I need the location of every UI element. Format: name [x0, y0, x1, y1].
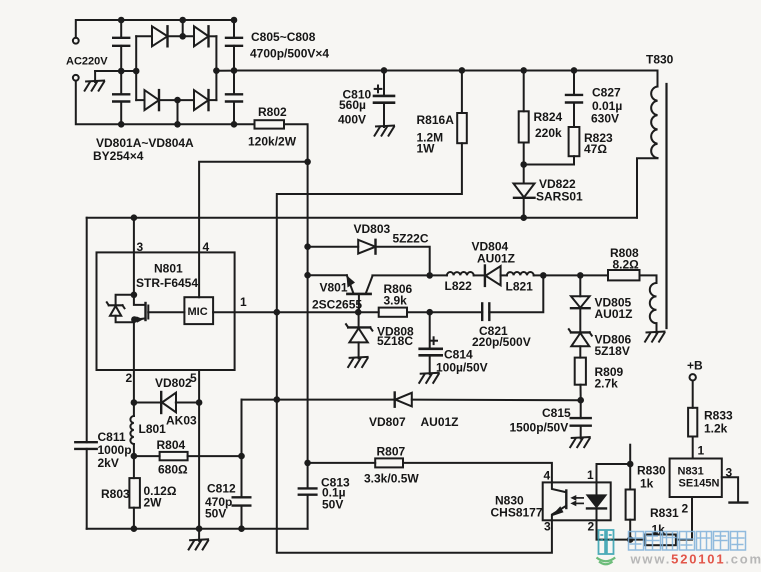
diode VD807 — [394, 393, 396, 407]
opto phototransistor emitter — [552, 506, 566, 521]
transformer T830 core — [665, 84, 667, 328]
svg-text:R807: R807 — [377, 445, 406, 459]
wire pin3 — [133, 218, 135, 295]
wire R823 bottom to VD822 node — [524, 156, 574, 164]
svg-text:SARS01: SARS01 — [536, 190, 583, 204]
svg-text:AU01Z: AU01Z — [595, 307, 633, 321]
svg-text:120k/2W: 120k/2W — [248, 135, 297, 149]
wire ground stub — [94, 71, 96, 82]
mosfet N801 gate lead — [148, 311, 184, 313]
svg-text:5Z22C: 5Z22C — [393, 232, 429, 246]
svg-text:R804: R804 — [157, 438, 186, 452]
capacitor C806 — [120, 71, 122, 94]
inductor L801 — [133, 403, 135, 417]
junction dots — [118, 17, 125, 24]
bridge rectifier frame right edge — [215, 36, 217, 100]
svg-text:4: 4 — [544, 469, 551, 483]
terminal +B — [690, 374, 696, 380]
svg-text:50V: 50V — [205, 507, 226, 521]
wire R802 node to pin4 branch — [199, 162, 308, 297]
mosfet N801 gate bar — [147, 306, 149, 319]
svg-text:220k: 220k — [535, 126, 562, 140]
wire V801 emitter line — [308, 274, 347, 276]
wire R816A bottom to left vertical and feedback loop — [277, 143, 552, 553]
svg-text:C812: C812 — [207, 482, 236, 496]
ground T830 secondary — [645, 332, 666, 343]
resistor R830 — [629, 445, 631, 490]
zener VD806 — [579, 308, 581, 332]
wire bridge top edge — [136, 35, 152, 37]
inductor L821 — [507, 272, 534, 275]
svg-text:1500p/50V: 1500p/50V — [510, 421, 569, 435]
wire bridge right to main bus — [216, 70, 234, 72]
MIC block — [184, 297, 213, 324]
svg-text:8.2Ω: 8.2Ω — [613, 258, 640, 272]
resistor R833 — [692, 381, 694, 408]
svg-text:R831: R831 — [650, 506, 679, 520]
transistor V801 — [347, 275, 354, 293]
transistor V801 emitter arrow — [347, 275, 356, 287]
svg-text:4700p/500V×4: 4700p/500V×4 — [250, 47, 329, 61]
svg-text:5Z18V: 5Z18V — [595, 344, 630, 358]
svg-text:3: 3 — [726, 466, 733, 480]
svg-text:2kV: 2kV — [98, 456, 119, 470]
inductor L822 — [430, 274, 447, 276]
capacitor C810 electrolytic — [383, 70, 385, 96]
svg-text:AC220V: AC220V — [66, 56, 108, 68]
svg-text:2SC2655: 2SC2655 — [312, 298, 362, 312]
svg-text:C814: C814 — [444, 348, 473, 362]
svg-text:C805~C808: C805~C808 — [251, 30, 316, 44]
svg-text:MIC: MIC — [188, 306, 208, 318]
diode VD803A — [145, 90, 160, 110]
wire R831 to N831 pin2 — [676, 497, 692, 540]
svg-text:www.520101.com: www.520101.com — [630, 552, 761, 567]
svg-text:N831: N831 — [678, 466, 704, 478]
capacitor C821 — [489, 275, 543, 312]
svg-text:560µ: 560µ — [339, 98, 366, 112]
svg-text:L821: L821 — [506, 280, 534, 294]
opto phototransistor base bar — [565, 491, 567, 509]
svg-text:3.9k: 3.9k — [384, 294, 408, 308]
capacitor C805 — [120, 20, 122, 38]
wire opto pin1 to R830 — [597, 464, 631, 482]
wire bridge bottom mid to bottom bus — [177, 100, 179, 124]
capacitor C813 — [307, 463, 309, 489]
capacitor C815 — [580, 400, 582, 418]
ground AC input — [84, 81, 105, 92]
svg-text:C827: C827 — [592, 86, 621, 100]
mosfet N801 source lead — [136, 318, 146, 319]
diode VD801A — [152, 26, 168, 46]
svg-text:1W: 1W — [417, 142, 436, 156]
svg-text:1: 1 — [587, 468, 594, 482]
wire bridge top mid to top bus — [182, 20, 184, 36]
svg-text:2: 2 — [588, 520, 595, 534]
svg-text:5Z18C: 5Z18C — [377, 334, 413, 348]
svg-text:1000p: 1000p — [98, 443, 132, 457]
wire opto pin2 line — [597, 520, 646, 539]
svg-text:2.7k: 2.7k — [595, 377, 619, 391]
capacitor C812 — [241, 400, 243, 498]
svg-text:220p/500V: 220p/500V — [472, 335, 531, 349]
svg-text:CHS8177: CHS8177 — [491, 506, 543, 520]
resistor R823 — [573, 103, 575, 128]
resistor R807 — [308, 462, 376, 464]
svg-text:C811: C811 — [98, 430, 126, 444]
svg-text:4: 4 — [203, 240, 210, 254]
wire ground stub bottom bus — [198, 529, 200, 541]
capacitor C808 — [233, 71, 235, 95]
wire left rail — [86, 218, 88, 443]
wire second bus — [87, 217, 637, 219]
opto light arrows — [573, 497, 584, 499]
diode VD803 — [308, 246, 359, 248]
ground VD808 — [348, 357, 369, 368]
IC N801 box — [97, 252, 235, 370]
wire R807 to opto pin4 — [403, 463, 552, 483]
svg-text:2: 2 — [126, 371, 133, 385]
svg-text:R802: R802 — [258, 105, 287, 119]
capacitor C827 — [573, 70, 575, 95]
wire pin2 — [133, 320, 135, 403]
wire pin5 — [198, 370, 200, 529]
wire main top bus to T830 — [234, 71, 658, 87]
svg-text:R824: R824 — [534, 110, 563, 124]
svg-text:400V: 400V — [338, 113, 366, 127]
svg-text:T830: T830 — [646, 53, 674, 67]
wire AC live to top bus — [76, 20, 234, 38]
diode VD805 — [579, 275, 581, 296]
svg-text:VD801A~VD804A: VD801A~VD804A — [96, 136, 194, 150]
resistor R824 — [523, 70, 525, 111]
wire pin1 from MIC — [213, 311, 358, 313]
svg-text:AU01Z: AU01Z — [421, 415, 459, 429]
svg-text:AK03: AK03 — [166, 414, 197, 428]
resistor R831 — [645, 535, 676, 546]
diode VD804A — [194, 90, 209, 110]
svg-text:1k: 1k — [640, 477, 654, 491]
svg-text:2: 2 — [682, 502, 689, 516]
wire bottom bus — [87, 528, 308, 530]
ground C810 — [374, 126, 395, 137]
ground bottom bus — [188, 539, 209, 550]
resistor R802 — [255, 120, 285, 128]
svg-text:3: 3 — [137, 240, 144, 254]
svg-text:C815: C815 — [542, 406, 571, 420]
svg-text:100µ/50V: 100µ/50V — [436, 361, 488, 375]
svg-text:AU01Z: AU01Z — [477, 252, 515, 266]
opto emitter arrow — [551, 506, 564, 516]
svg-text:N801: N801 — [154, 262, 183, 276]
wire N831 pin3 to ground — [722, 477, 738, 502]
svg-text:R830: R830 — [637, 464, 666, 478]
mosfet N801 source arrow — [137, 316, 144, 322]
svg-text:SE145N: SE145N — [679, 478, 720, 490]
svg-text:R816A: R816A — [417, 113, 455, 127]
svg-text:3.3k/0.5W: 3.3k/0.5W — [364, 472, 419, 486]
transformer T830 primary winding — [651, 87, 657, 159]
svg-text:BY254×4: BY254×4 — [93, 149, 144, 163]
svg-text:1: 1 — [240, 295, 247, 309]
resistor R803 — [133, 456, 135, 478]
resistor R808 — [608, 270, 640, 280]
optocoupler N830 box — [543, 482, 611, 520]
terminal AC neutral — [73, 75, 79, 81]
watermark hanzi row — [629, 532, 746, 551]
diode VD802A — [194, 26, 209, 46]
terminal AC live — [73, 38, 79, 44]
wire bridge bottom edge — [136, 99, 144, 101]
svg-text:630V: 630V — [591, 112, 619, 126]
wire aux rail — [242, 399, 395, 401]
resistor R816A — [461, 70, 463, 113]
svg-text:R833: R833 — [704, 409, 733, 423]
svg-text:L822: L822 — [445, 279, 473, 293]
ground C815 — [570, 437, 591, 448]
svg-text:VD802: VD802 — [155, 376, 192, 390]
svg-text:47Ω: 47Ω — [584, 142, 607, 156]
svg-text:VD803: VD803 — [354, 222, 391, 236]
wire long vertical R802 node down — [307, 162, 309, 463]
wire T830 primary bottom — [637, 158, 658, 218]
resistor R806 — [358, 311, 379, 313]
svg-text:680Ω: 680Ω — [158, 463, 188, 477]
capacitor C807 — [233, 20, 235, 38]
wire AC neutral to bottom bus — [76, 81, 255, 125]
ground C814 — [419, 373, 440, 384]
svg-text:V801: V801 — [320, 281, 348, 295]
bridge rectifier frame left edge — [135, 36, 137, 100]
wire mid-left AC node — [95, 70, 136, 72]
diode VD822 — [523, 165, 525, 184]
svg-text:1.2k: 1.2k — [704, 422, 728, 436]
mosfet N801 channel bar — [144, 303, 146, 320]
svg-text:L801: L801 — [139, 422, 167, 436]
capacitor C814 electrolytic — [429, 312, 431, 349]
mosfet N801 drain lead — [134, 295, 146, 305]
svg-text:50V: 50V — [322, 498, 343, 512]
watermark book icon — [599, 530, 614, 554]
transformer T830 secondary winding — [640, 275, 657, 283]
ground N831 pin3 — [730, 501, 748, 503]
zener VD808 — [358, 312, 360, 327]
opto LED — [596, 482, 598, 495]
resistor R804 — [134, 455, 160, 457]
svg-text:R803: R803 — [101, 487, 130, 501]
capacitor C811 — [75, 441, 96, 443]
svg-text:2W: 2W — [144, 496, 163, 510]
IC N831 box — [670, 459, 722, 498]
svg-text:STR-F6454: STR-F6454 — [136, 276, 198, 290]
resistor R809 — [579, 346, 581, 357]
opto phototransistor collector — [552, 482, 566, 492]
svg-text:+B: +B — [687, 359, 703, 373]
svg-text:VD807: VD807 — [369, 415, 406, 429]
svg-text:3: 3 — [544, 520, 551, 534]
svg-text:1: 1 — [698, 444, 705, 458]
diode VD804 — [484, 266, 486, 286]
zener inside N801 — [116, 295, 134, 306]
diode VD802 — [134, 402, 161, 404]
